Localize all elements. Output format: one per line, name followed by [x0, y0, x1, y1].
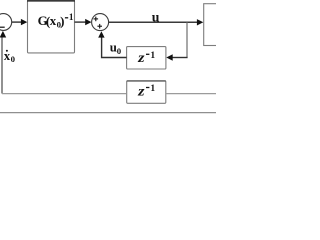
- wire u0 : upper z^-1 to S2: [102, 38, 127, 58]
- svg-text:): ): [60, 14, 64, 29]
- label z^-1 (lower): [137, 83, 155, 99]
- svg-text:1: 1: [69, 13, 74, 23]
- wire branch down from u line: [186, 22, 188, 57]
- minus sign of S1: [0, 26, 5, 28]
- label z^-1 (upper): [137, 50, 155, 66]
- svg-text:0: 0: [117, 46, 122, 56]
- svg-text:z: z: [137, 51, 145, 66]
- svg-text:1: 1: [150, 50, 155, 61]
- summing junction S2: [92, 14, 109, 31]
- plus sign upper-left of S2: [94, 17, 99, 22]
- wire bottom feedback line: [0, 112, 216, 114]
- arrowhead into upper z^-1: [166, 54, 172, 60]
- block z^-1 (lower): [127, 81, 166, 104]
- arrowhead into plant: [197, 19, 203, 25]
- block plant (right, cropped): [204, 4, 220, 46]
- wire S1 to G block: [12, 21, 22, 23]
- arrowhead into S1 bottom: [0, 31, 6, 38]
- wire u : S2 to plant: [109, 21, 198, 23]
- summing junction S1 (left, cropped): [0, 14, 12, 31]
- wire branch to upper z^-1: [172, 57, 188, 59]
- wire lower z^-1 input from right edge: [166, 93, 216, 95]
- block G(x0)^-1: [27, 1, 75, 53]
- svg-text:z: z: [137, 84, 145, 99]
- wire xdot0 feedback : vertical up into S1: [1, 37, 3, 93]
- arrowhead into S2 bottom: [98, 31, 104, 37]
- plus sign lower of S2: [97, 24, 102, 29]
- svg-text:0: 0: [11, 54, 16, 64]
- label u0: [110, 41, 122, 57]
- label G(x0)^-1: [38, 13, 74, 29]
- svg-text:1: 1: [150, 83, 155, 94]
- block z^-1 (upper): [127, 47, 166, 69]
- svg-text:u: u: [152, 10, 160, 25]
- wire G block to S2: [75, 21, 87, 23]
- arrowhead into S2 left: [85, 19, 91, 25]
- wire lower z^-1 output to left: [2, 93, 127, 95]
- arrowhead into G block: [21, 19, 27, 25]
- label xdot0: [4, 49, 16, 64]
